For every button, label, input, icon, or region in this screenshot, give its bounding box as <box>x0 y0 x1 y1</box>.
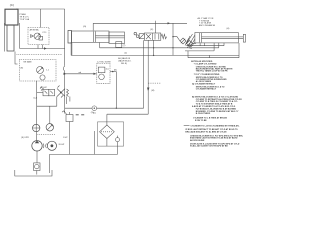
cluster valve block right square <box>49 89 55 96</box>
coupling <box>43 144 46 149</box>
cylinder H rod <box>202 37 244 39</box>
svg-text:B ON TO BE: B ON TO BE <box>195 120 207 122</box>
wire valve T port x147.4 <box>147 40 149 114</box>
wire strainer to tank <box>36 171 38 175</box>
cylinder G body <box>72 31 110 43</box>
wire hand pump drain <box>69 122 71 155</box>
svg-text:BRLCADE EVALENT TO AL BRD AT C: BRLCADE EVALENT TO AL BRD AT CYLDE <box>185 130 227 133</box>
junction dots x173 <box>172 36 173 37</box>
frame box bottom right <box>188 43 239 58</box>
wire line y50.9 <box>185 43 214 51</box>
wire gauge stem x49.8 <box>49 106 51 123</box>
svg-text:20 HP: 20 HP <box>59 144 65 146</box>
svg-text:U=1: U=1 <box>33 97 38 99</box>
svg-text:CYLINDER RETRACT: CYLINDER RETRACT <box>196 87 217 90</box>
wire cluster outlet x66.3 <box>65 97 67 105</box>
wire return line y108.2 <box>65 107 144 109</box>
svg-text:(7): (7) <box>123 45 126 47</box>
flow control FC2 diamond <box>187 41 193 47</box>
svg-text:P MAX: P MAX <box>20 13 27 16</box>
wire return drop into tank <box>49 154 51 173</box>
wire G cap port <box>71 43 73 55</box>
wire cluster feed y106.2 <box>37 105 57 107</box>
wire cluster outlet x69.9 <box>69 97 71 102</box>
relief enclosure E (dashed) <box>19 60 56 82</box>
svg-text:SCALL AE OLDEST CHOTIS APD AT: SCALL AE OLDEST CHOTIS APD AT BD <box>190 145 228 148</box>
wire U pipe left x116.3 <box>115 72 117 109</box>
cylinder H clevis hatch <box>185 34 195 49</box>
check valve CV1 cross <box>33 124 40 131</box>
relief valve R1 arrow <box>37 67 42 72</box>
svg-text:(H): (H) <box>227 28 230 30</box>
cylinder G rod <box>96 36 125 38</box>
svg-text:A) CYLINDER RETRACT: A) CYLINDER RETRACT <box>192 83 216 86</box>
svg-text:(E): (E) <box>21 68 24 70</box>
gauge S dot <box>94 108 95 109</box>
valve K spring <box>161 34 167 39</box>
pump P1 outlet triangle <box>35 141 40 143</box>
wire stub lower-left <box>15 52 18 65</box>
motor M1 inner dot <box>51 144 54 147</box>
wire supply arrow line y73.8 <box>65 73 97 75</box>
wire valve K P drop <box>153 40 155 55</box>
bypass wire <box>117 136 119 147</box>
wire dashed drain y83.1 <box>148 82 160 84</box>
cluster relief X <box>57 89 65 97</box>
valve enclosure B (dashed) <box>97 63 110 83</box>
filter F1 diamond <box>100 125 115 139</box>
svg-text:THE FUL TANKS LOOP AT ON PR: THE FUL TANKS LOOP AT ON PR <box>196 70 228 73</box>
wire tank line y55.4 <box>71 54 239 56</box>
flow control FC1 diamond <box>173 37 180 41</box>
wire dashed drain y134.5 <box>37 134 56 136</box>
svg-text:1.1: 1.1 <box>46 70 50 72</box>
wire cluster feed stub <box>37 92 43 94</box>
wire filter drop to return <box>117 146 119 154</box>
arrowhead 2 <box>94 73 97 75</box>
cylinder H end plate <box>243 34 245 42</box>
hand pump drain marks <box>76 114 85 116</box>
svg-text:*1 CLAMP CYL EXTEND: *1 CLAMP CYL EXTEND <box>194 63 217 66</box>
wire box B outlet <box>110 71 116 73</box>
indicator circles <box>134 32 137 35</box>
hand pump HP1 body <box>66 115 73 122</box>
gauge G2 circle <box>46 124 53 131</box>
wire H port 1 <box>199 43 201 46</box>
valve V1 arrow <box>35 34 40 39</box>
svg-text:(C): (C) <box>106 68 109 70</box>
notes dash bullet <box>184 125 190 127</box>
valve K arrows right cell <box>155 34 159 40</box>
wire top from box C1 to pilot drop <box>16 8 65 10</box>
svg-text:NE MAN: NE MAN <box>24 60 32 63</box>
wire pressure line y47.8 <box>100 43 219 48</box>
svg-text:CYLINDER TO L AT B:CYLINDERED: CYLINDER TO L AT B:CYLINDERED BY TRNDE A… <box>191 124 241 127</box>
strainer S1 box <box>34 163 40 171</box>
wire pilot drop x173 <box>172 23 174 55</box>
svg-text:(C): (C) <box>10 3 14 7</box>
wire valve A port x143.6 <box>143 40 145 108</box>
svg-text:1 HP: 1 HP <box>63 137 68 139</box>
wire filter feed <box>106 114 108 125</box>
filter F1 element dashes <box>101 131 113 133</box>
svg-text:(K): (K) <box>150 29 153 31</box>
wire drain drop x92.2 <box>94 131 96 154</box>
wire line y45.7 <box>186 43 224 46</box>
junction tick <box>44 47 47 49</box>
svg-text:1.27 BC SCHM: 1.27 BC SCHM <box>97 61 111 63</box>
pump P1 circle <box>32 141 42 151</box>
flow arrow M <box>147 88 149 92</box>
gauge G1 circle <box>40 75 45 80</box>
wire dashed pilot y54.5 <box>17 54 63 56</box>
svg-text:(G): (G) <box>83 26 86 28</box>
svg-text:(B): (B) <box>114 70 117 72</box>
svg-text:T 1/8" DIA: T 1/8" DIA <box>20 18 30 21</box>
relief valve R1 circle <box>37 67 44 74</box>
tank T1 <box>15 170 52 176</box>
wire hop bump <box>63 66 64 114</box>
junction dots P/T <box>153 47 154 48</box>
svg-text:(M): (M) <box>151 90 154 92</box>
wire port G top <box>92 23 94 30</box>
wire filter outlet <box>106 139 108 147</box>
wire main vertical A <box>19 23 21 49</box>
right notes text column <box>185 60 243 148</box>
valve K body <box>144 33 161 40</box>
valve V1 aux box <box>39 36 43 40</box>
valve V1 circle <box>34 33 40 39</box>
svg-text:(S) UPR: (S) UPR <box>21 137 29 139</box>
wire top pilot y23.3 <box>93 22 187 24</box>
wire pump suction <box>36 151 38 163</box>
solenoid K box <box>139 34 144 39</box>
motor M1 outer circle <box>47 141 56 150</box>
wire G rod port <box>99 43 101 48</box>
wire frame left <box>70 42 72 55</box>
wire H port 2 <box>204 43 206 46</box>
cylinder H text block <box>198 17 216 27</box>
wire valve K feed <box>155 23 157 33</box>
value label text block <box>20 13 30 21</box>
cluster arrowhead <box>60 91 62 93</box>
cylinder G end cap <box>68 31 72 44</box>
svg-text:NOTES AS SPECIFIED: NOTES AS SPECIFIED <box>191 60 213 63</box>
cylinder H piston <box>200 33 202 42</box>
svg-text:AE ROD BLINE: AE ROD BLINE <box>190 139 205 142</box>
arrow on top line <box>168 22 171 24</box>
strainer S1 circle <box>35 164 39 168</box>
wire tank header y113.9 <box>107 113 148 115</box>
svg-text:*2 1/2" CYLINDER EXTEND: *2 1/2" CYLINDER EXTEND <box>194 74 220 76</box>
solenoid K diagonal <box>139 34 144 39</box>
svg-text:AH IN MA: AH IN MA <box>30 28 40 31</box>
cluster valve block left square <box>43 89 49 96</box>
gauge S circle on line <box>92 106 97 111</box>
port line b <box>41 45 43 49</box>
wire return line y154.4 <box>50 153 118 155</box>
wire left wall <box>4 23 6 52</box>
label AS VALVE note <box>118 57 132 65</box>
wire junction line y48.5 <box>20 48 65 50</box>
valve V1 pilot triangle <box>31 35 34 38</box>
wire riser from pump <box>36 81 38 141</box>
bypass check valve <box>116 138 120 142</box>
cylinder G piston <box>94 32 96 43</box>
svg-text:wd: wd <box>79 72 82 74</box>
wire cluster drop x56.8 <box>56 97 58 107</box>
hand pump HP1 handle <box>62 111 70 115</box>
cylinder G limit box <box>116 42 122 48</box>
gauge G2 mark <box>47 125 52 130</box>
cluster hatch marks <box>40 86 63 98</box>
svg-text:SEL B): SEL B) <box>121 63 127 65</box>
arrowhead 1 <box>64 73 67 75</box>
svg-text:C2.1: C2.1 <box>42 32 47 34</box>
valve enclosure C2.1 (dashed) <box>28 28 49 45</box>
valve B circle <box>99 74 105 80</box>
cluster spring <box>67 89 69 97</box>
cylinder G bracket <box>109 32 125 44</box>
filter box F1 <box>98 122 124 146</box>
junction tick x155.7 <box>155 21 157 24</box>
accumulator box C1 <box>5 9 18 25</box>
valve K arrows left cell <box>146 34 151 39</box>
cylinder H body <box>195 33 238 43</box>
port line a <box>37 45 39 49</box>
wire long vertical x64.7 <box>64 9 66 66</box>
junction dot B <box>112 71 114 73</box>
junction dot return <box>116 108 117 109</box>
valve B box <box>98 67 105 73</box>
svg-text:B ON B TNKED: B ON B TNKED <box>196 113 211 115</box>
svg-text:ANCO WILAMETA: ANCO WILAMETA <box>199 24 215 27</box>
valve K centre line <box>152 33 154 40</box>
accumulator box C2 <box>7 25 14 51</box>
svg-text:(d): (d) <box>125 52 128 54</box>
check valve CV1 circle <box>33 124 40 131</box>
svg-text:(S): (S) <box>91 112 94 114</box>
junction dot <box>64 73 65 74</box>
